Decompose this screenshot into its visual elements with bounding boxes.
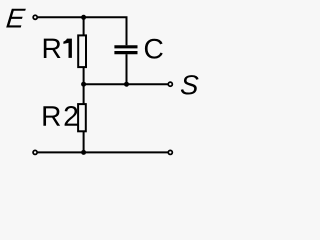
wire E to node A <box>38 16 84 18</box>
node A2 junction (R1/R2 tap) <box>81 82 86 87</box>
wire R1 bottom lead <box>83 68 85 85</box>
node A junction <box>81 15 86 20</box>
resistor R2 <box>78 104 86 131</box>
label R2 <box>43 106 60 125</box>
label E <box>6 9 26 28</box>
wire R1 top lead <box>83 17 85 35</box>
label R1 digit 1 <box>63 39 72 58</box>
capacitor C top plate <box>114 45 137 48</box>
wire node A to capacitor top <box>84 17 127 45</box>
label R1 <box>44 39 61 58</box>
label R2 digit 2 <box>65 106 78 126</box>
terminal E <box>33 15 37 19</box>
label S <box>181 75 199 94</box>
wire R2 top lead <box>83 84 85 104</box>
resistor R1 <box>78 35 86 67</box>
capacitor C bottom plate <box>114 51 137 54</box>
node B junction <box>124 82 129 87</box>
bottom rail wire <box>38 151 169 153</box>
wire node A2 to node B <box>84 83 169 85</box>
terminal bottom right <box>168 150 172 154</box>
label C <box>145 39 163 59</box>
terminal S <box>168 82 172 86</box>
wire R2 bottom lead <box>83 132 85 153</box>
terminal bottom left <box>33 150 37 154</box>
wire capacitor bottom to node B <box>126 54 128 84</box>
bottom rail junction under R2 <box>81 150 86 155</box>
